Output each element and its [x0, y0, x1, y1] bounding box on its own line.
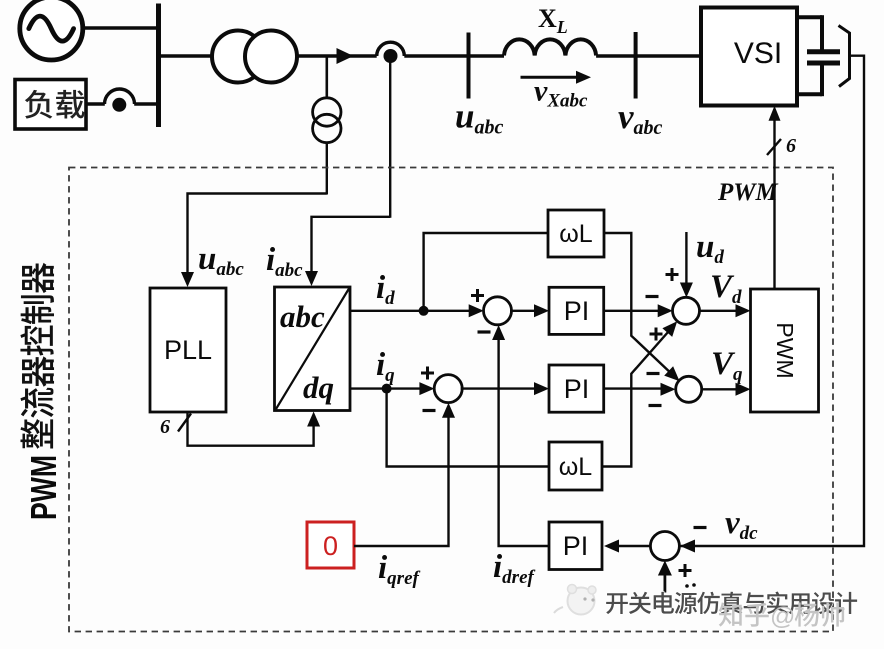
summing junction S4 (V_q): [676, 376, 702, 402]
svg-text:iabc: iabc: [266, 242, 303, 281]
svg-text:@: @: [770, 603, 795, 631]
svg-text:vabc: vabc: [618, 97, 663, 139]
load box 负载: [15, 80, 86, 130]
PI box d-axis: [549, 287, 604, 334]
svg-text:abc: abc: [280, 299, 325, 334]
wL box bottom: [549, 442, 602, 490]
label i_q: [376, 347, 395, 386]
power flow arrow: [337, 48, 354, 64]
wire wL bottom to cross: [602, 332, 669, 467]
svg-text:idref: idref: [493, 549, 535, 588]
bus tick u_abc: [467, 33, 471, 99]
watermark text 开关电源仿真与实用设计: [606, 592, 857, 615]
svg-text:PWM: PWM: [772, 322, 798, 378]
PI box dc: [549, 522, 602, 570]
wire PLL to abc/dq (theta): [188, 412, 321, 446]
svg-text:VSI: VSI: [734, 37, 782, 70]
sign plus cross (to S3): [650, 328, 663, 341]
label v_dc ref marks: [685, 583, 696, 588]
sign minus S2: [423, 409, 436, 412]
label i_abc: [266, 242, 303, 281]
PI box q-axis: [549, 365, 604, 412]
summing junction S3 (V_d): [673, 297, 700, 324]
svg-text:id: id: [376, 270, 395, 309]
label u_abc (PLL input): [198, 241, 244, 280]
busbar node B1: [156, 4, 161, 128]
svg-text:uabc: uabc: [198, 241, 244, 280]
vertical title PWM整流器控制器: [20, 263, 64, 520]
arrow v_Xabc: [521, 71, 592, 84]
sign minus cross (to S4): [647, 372, 660, 375]
svg-text:PI: PI: [563, 531, 589, 561]
wire CT2 to controller: [389, 60, 391, 218]
arrow v_dc into S5: [680, 540, 695, 553]
node i_d: [419, 306, 429, 316]
svg-text:ωL: ωL: [559, 453, 593, 481]
svg-text:XL: XL: [538, 4, 568, 37]
svg-text:Vd: Vd: [710, 269, 742, 308]
label V_q: [711, 346, 743, 385]
sign plus S1: [471, 289, 484, 302]
svg-text:ωL: ωL: [559, 220, 593, 248]
label i_qref: [378, 550, 420, 589]
label 6 (PWM bus): [786, 135, 796, 157]
label X_L: [538, 4, 568, 37]
sign plus S2: [421, 367, 434, 380]
label v_Xabc: [534, 75, 588, 112]
brace v_dc measurement: [839, 26, 850, 87]
sign minus S5: [694, 526, 707, 529]
label V_d: [710, 269, 742, 308]
wire AC source to busbar: [78, 26, 157, 30]
label v_dc: [725, 505, 758, 544]
svg-text:0: 0: [323, 531, 338, 561]
wire wL top to cross: [604, 233, 671, 373]
capacitor C1: [807, 52, 840, 63]
svg-text:ud: ud: [696, 229, 724, 268]
sign minus S1: [478, 330, 491, 333]
feedforward u_d wire: [680, 232, 693, 298]
svg-text:Vq: Vq: [711, 346, 743, 385]
svg-text:iqref: iqref: [378, 550, 420, 589]
sign plus S5: [679, 564, 692, 577]
wire load to busbar: [86, 102, 157, 106]
PWM box: [751, 289, 819, 412]
wire busbar to transformer: [159, 54, 213, 58]
v_dc ref arrow: [658, 561, 672, 593]
label u_abc (grid voltage): [455, 97, 503, 139]
sign plus u_d: [666, 268, 679, 281]
current sensor CT2 hump: [377, 42, 405, 56]
watermark logo: [554, 585, 596, 615]
svg-text:PLL: PLL: [164, 335, 212, 365]
sign minus S4 left: [649, 404, 662, 407]
current sensor CT1 hump: [105, 89, 135, 104]
summing junction S5 (v_dc): [650, 532, 679, 561]
bus slash (PWM): [767, 139, 781, 155]
DC link vertical wires: [820, 15, 824, 96]
DC link bottom stub: [797, 92, 822, 96]
dashed controller boundary: [69, 168, 833, 632]
wire PWM to VSI: [769, 106, 781, 289]
svg-text:PWM: PWM: [717, 179, 779, 206]
svg-text:PI: PI: [564, 374, 590, 404]
reference 0 box: [307, 522, 354, 568]
svg-text:6: 6: [786, 135, 796, 157]
wire S4 to PWM: [701, 383, 750, 396]
svg-text:uabc: uabc: [455, 97, 503, 139]
wire S5 to PI dc: [604, 540, 651, 553]
label 6 (PLL bus): [160, 416, 170, 438]
PLL box: [150, 288, 226, 412]
summing junction S2 (q current): [434, 375, 462, 403]
inductor X_L: [504, 39, 596, 55]
wire u_abc to PLL: [181, 194, 327, 288]
wire PT to controller: [326, 143, 328, 195]
label i_dref: [493, 549, 535, 588]
abc/dq transform box: [275, 287, 351, 411]
bus tick v_abc: [634, 32, 638, 99]
label PWM (signal): [717, 179, 779, 206]
wire i_q: [350, 382, 434, 395]
svg-text:6: 6: [160, 416, 170, 438]
VSI box U1: [701, 8, 797, 106]
svg-text:PI: PI: [564, 296, 590, 326]
watermark text 知乎@杨帅: [719, 603, 844, 631]
current sensor CT2 dot: [384, 49, 398, 63]
transformer T1: [212, 31, 297, 83]
voltage transformer PT drop wire: [325, 56, 328, 99]
wire i_d: [350, 304, 484, 317]
label i_d: [376, 270, 395, 309]
svg-text:dq: dq: [303, 370, 334, 405]
wire i_q node to wL bottom: [387, 389, 548, 467]
summing junction S1 (d current): [484, 297, 512, 325]
node i_q: [382, 384, 392, 394]
wire S2 to PI q: [461, 382, 549, 395]
wire S3 to PWM: [699, 304, 750, 317]
bus slash (PLL): [178, 414, 191, 432]
AC source G1: [20, 0, 83, 60]
wL box top: [548, 210, 604, 257]
arrow cross into S4: [664, 366, 679, 381]
label v_abc (converter voltage): [618, 97, 663, 139]
main AC line: [297, 54, 701, 58]
wire PI q to S4: [604, 383, 676, 396]
svg-text:PWM: PWM: [23, 455, 64, 520]
label u_d: [696, 229, 724, 268]
wire PI dc to S1 (i_dref): [492, 325, 549, 546]
sign minus S3 left: [646, 295, 659, 298]
wire v_dc feedback: [680, 56, 864, 546]
DC link top stub: [797, 15, 822, 19]
current sensor CT1 dot: [112, 98, 126, 112]
wire i_d node to wL top: [424, 233, 547, 311]
svg-text:vdc: vdc: [725, 505, 758, 544]
wire 0 box to S2 (i_qref): [354, 403, 455, 546]
svg-text:iq: iq: [376, 347, 395, 386]
wire S1 to PI d: [510, 304, 549, 317]
wire i_abc to abc/dq: [305, 217, 390, 286]
wire PI d to S3: [604, 304, 673, 317]
voltage transformer PT: [313, 98, 341, 143]
arrow cross into S3: [662, 321, 677, 337]
